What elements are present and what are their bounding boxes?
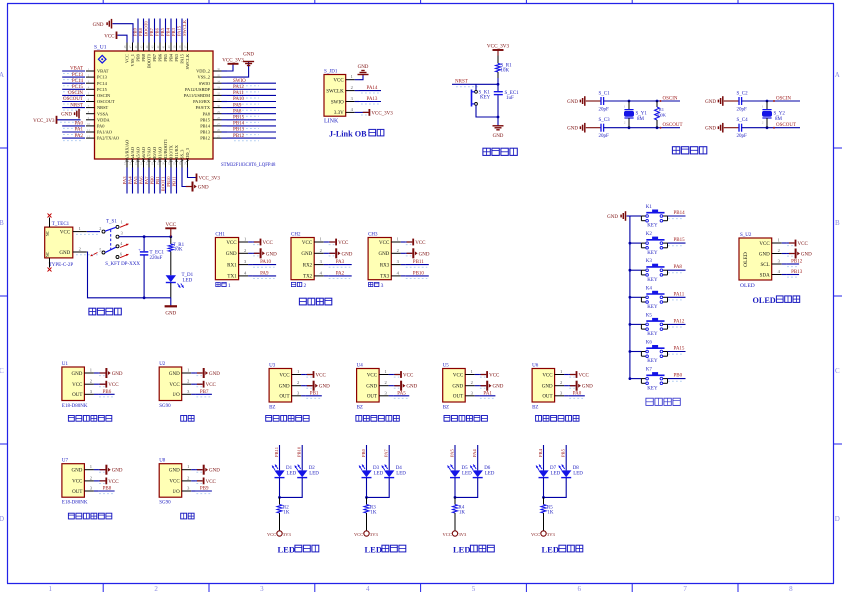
svg-text:1: 1 <box>351 74 353 79</box>
svg-text:PB12: PB12 <box>233 134 245 139</box>
svg-text:LED: LED <box>573 471 583 476</box>
svg-text:SWCLK: SWCLK <box>182 19 187 36</box>
svg-text:2: 2 <box>244 248 246 253</box>
LED D2 <box>295 465 320 478</box>
ground GND (S_C4 crystal bottom) <box>705 123 739 133</box>
ground GND (S_C1 crystal top) <box>567 96 601 106</box>
svg-text:E18-D80NK: E18-D80NK <box>62 501 88 506</box>
svg-text:2: 2 <box>351 85 353 90</box>
wire and net label PB10 (U1 bottom) <box>166 168 171 194</box>
svg-text:PA4: PA4 <box>472 449 477 457</box>
svg-text:VDD_2: VDD_2 <box>196 69 210 74</box>
svg-text:PB5: PB5 <box>160 27 165 36</box>
module U6 body <box>532 364 569 411</box>
svg-text:PB15: PB15 <box>233 116 245 121</box>
svg-text:PA11: PA11 <box>233 91 244 96</box>
no-connect arrow switch pin 5 <box>91 253 98 257</box>
ground GND at U5 pin 2 <box>479 381 503 391</box>
dash marks near TBC1 GND pin <box>76 254 99 256</box>
connector S_JD1 J-Link body <box>324 70 359 125</box>
svg-text:PB14: PB14 <box>674 211 686 216</box>
svg-text:3: 3 <box>121 230 123 235</box>
svg-text:VCC_3V3: VCC_3V3 <box>371 111 393 116</box>
svg-text:PA0: PA0 <box>75 122 84 127</box>
wire and net label PA12 (key K5) <box>668 319 686 327</box>
svg-text:2: 2 <box>99 226 101 231</box>
svg-text:PB10: PB10 <box>297 446 302 457</box>
push button K6 KEY <box>629 341 668 365</box>
svg-text:VCC_3V3: VCC_3V3 <box>199 177 221 182</box>
svg-text:2: 2 <box>297 380 299 385</box>
svg-text:VCC_3V3: VCC_3V3 <box>222 59 244 64</box>
wire TBC1 GND to bottom rail <box>87 252 171 299</box>
svg-text:GND: GND <box>112 469 123 474</box>
title for module U7 <box>68 513 111 519</box>
svg-text:U1: U1 <box>62 362 69 367</box>
svg-text:1: 1 <box>49 585 53 592</box>
svg-text:PB3: PB3 <box>174 53 179 61</box>
svg-text:PA12: PA12 <box>674 319 685 324</box>
svg-text:PB12: PB12 <box>200 136 210 141</box>
ground GND at S_JD1 pin 1 <box>358 65 369 80</box>
power VCC at U3 pin 1 <box>306 371 327 378</box>
svg-text:VCC: VCC <box>333 79 344 84</box>
wire and net label SWCLK (U1 top) <box>182 19 188 43</box>
svg-text:1: 1 <box>79 226 81 231</box>
wire and net label PA10 (U1 right) <box>227 97 276 104</box>
svg-text:D8: D8 <box>573 466 580 471</box>
resistor S_R1 10K <box>496 56 513 79</box>
svg-text:PA2: PA2 <box>336 272 345 277</box>
wire and net label PA12 (U1 right) <box>227 85 276 92</box>
resistor R5 1K <box>541 497 554 530</box>
svg-text:VCC: VCC <box>169 383 180 388</box>
power VCC at U7 pin 2 <box>99 478 120 485</box>
wire and net label PB13 (U1 right) <box>227 128 276 135</box>
svg-text:2: 2 <box>320 248 322 253</box>
wire and net label PB1 (U1 bottom) <box>155 168 160 194</box>
svg-text:GND: GND <box>452 385 463 390</box>
wire and net label NRST (U1 left pin 7) <box>62 103 85 110</box>
resistor T_R1 10K <box>168 237 184 262</box>
svg-text:K4: K4 <box>646 286 653 291</box>
svg-text:PC14: PC14 <box>97 81 108 86</box>
wire OSCIN row <box>604 100 680 102</box>
svg-text:OUT: OUT <box>367 395 377 400</box>
svg-text:GND: GND <box>59 251 70 256</box>
svg-text:PA5: PA5 <box>133 176 138 184</box>
svg-text:K7: K7 <box>646 368 653 373</box>
net label OSCOUT <box>660 123 683 129</box>
wire and net label VBAT (U1 left pin 1) <box>62 67 85 74</box>
svg-text:VSSA: VSSA <box>97 111 109 116</box>
svg-text:U4: U4 <box>357 364 364 369</box>
svg-text:PA12/USBDP: PA12/USBDP <box>185 87 211 92</box>
svg-text:E18-D80NK: E18-D80NK <box>62 404 88 409</box>
svg-text:1K: 1K <box>370 511 377 516</box>
svg-text:KEY: KEY <box>647 251 658 256</box>
svg-text:2: 2 <box>304 283 307 289</box>
svg-text:GND: GND <box>366 385 377 390</box>
svg-text:PB1: PB1 <box>155 176 160 185</box>
svg-text:VCC: VCC <box>104 35 115 40</box>
svg-text:PB4: PB4 <box>169 53 174 61</box>
svg-text:C: C <box>835 367 840 375</box>
svg-text:2: 2 <box>778 248 780 253</box>
svg-text:PB6: PB6 <box>158 53 163 61</box>
wire and net label PA1 at U5 pin 3 <box>479 391 495 398</box>
svg-text:GND: GND <box>567 127 578 132</box>
svg-text:GND: GND <box>72 469 83 474</box>
svg-text:10K: 10K <box>174 248 183 253</box>
svg-text:8M: 8M <box>775 117 783 122</box>
svg-text:2: 2 <box>762 121 764 125</box>
svg-text:1: 1 <box>471 369 473 374</box>
svg-text:PB13: PB13 <box>791 270 803 275</box>
svg-text:VCC: VCC <box>453 373 464 378</box>
svg-text:OLED: OLED <box>753 296 776 305</box>
svg-text:PB5: PB5 <box>163 53 168 61</box>
wire and net label PA2 at CH2 pin 4 <box>328 272 352 279</box>
svg-text:PB15: PB15 <box>200 117 211 122</box>
svg-text:S_JD1: S_JD1 <box>324 70 338 75</box>
svg-text:GND: GND <box>72 372 83 377</box>
svg-text:OUT: OUT <box>279 395 289 400</box>
svg-text:GND: GND <box>165 312 176 317</box>
svg-text:8: 8 <box>789 585 793 592</box>
svg-text:VCC: VCC <box>489 374 500 379</box>
svg-text:R3: R3 <box>370 505 376 510</box>
svg-text:LED: LED <box>183 278 193 283</box>
svg-text:S_KFT DP-XXX: S_KFT DP-XXX <box>105 262 140 267</box>
svg-text:PB13: PB13 <box>200 130 211 135</box>
capacitor S_C2 20pF <box>737 92 749 113</box>
svg-text:GND: GND <box>112 372 123 377</box>
power VCC at S_U2 pin 1 <box>787 240 809 247</box>
svg-text:GND: GND <box>406 385 417 390</box>
svg-text:LED: LED <box>287 471 297 476</box>
svg-text:SDA: SDA <box>760 273 770 278</box>
svg-text:7: 7 <box>683 585 687 592</box>
wire and net label PB13 at S_U2 pin 4 <box>787 270 803 277</box>
svg-text:GND: GND <box>542 385 553 390</box>
LED D3 <box>359 465 384 478</box>
svg-text:PA5/AO: PA5/AO <box>136 147 141 162</box>
svg-text:T_D1: T_D1 <box>182 273 194 278</box>
svg-text:GND: GND <box>607 215 618 220</box>
svg-text:PB14: PB14 <box>200 124 211 129</box>
title for module U5 <box>444 416 487 422</box>
svg-text:RX1: RX1 <box>227 263 237 268</box>
net label OSCIN <box>773 96 791 102</box>
svg-text:1: 1 <box>397 237 399 242</box>
svg-text:PB5: PB5 <box>561 448 566 457</box>
svg-text:GND: GND <box>759 252 770 257</box>
svg-text:GND: GND <box>169 372 180 377</box>
wire and net label PA0 at U6 pin 3 <box>569 391 585 398</box>
wire and net label PB14 (U1 right) <box>227 122 276 129</box>
title LED light circuit <box>453 545 494 555</box>
svg-text:K3: K3 <box>646 259 653 264</box>
svg-text:VBAT: VBAT <box>70 67 83 72</box>
svg-text:PB9: PB9 <box>132 27 137 36</box>
svg-text:3V3: 3V3 <box>459 532 467 537</box>
svg-text:VCC: VCC <box>367 373 378 378</box>
svg-text:PB8: PB8 <box>141 53 146 61</box>
LED D5 <box>448 465 473 478</box>
svg-text:VCC: VCC <box>531 532 540 537</box>
svg-text:PA8: PA8 <box>674 265 683 270</box>
svg-text:B: B <box>0 219 4 227</box>
svg-text:VCC: VCC <box>415 241 426 246</box>
svg-text:LED: LED <box>485 471 495 476</box>
wire and net label PB11 (LED column) <box>274 445 280 470</box>
svg-text:R4: R4 <box>458 505 464 510</box>
wire and net label OSCOUT (U1 left pin 6) <box>62 97 85 104</box>
svg-text:3: 3 <box>381 283 384 289</box>
LED T_D1 <box>166 262 194 298</box>
push button K3 KEY <box>629 259 668 283</box>
wire and net label PB12 at S_U2 pin 3 <box>787 259 803 266</box>
svg-text:D: D <box>0 515 4 523</box>
svg-text:PB15: PB15 <box>674 238 686 243</box>
ground GND at U7 pin 1 <box>99 465 123 475</box>
svg-text:PA11: PA11 <box>674 292 685 297</box>
svg-text:PA7: PA7 <box>384 449 389 457</box>
svg-text:PB11: PB11 <box>171 176 176 187</box>
svg-text:GND: GND <box>358 65 369 70</box>
wire and net label PA5 (U1 bottom) <box>133 168 138 194</box>
svg-text:S_C4: S_C4 <box>737 118 749 123</box>
svg-text:PA1/AO: PA1/AO <box>97 130 112 135</box>
svg-text:PB11: PB11 <box>413 260 424 265</box>
svg-text:NRST: NRST <box>70 103 83 108</box>
svg-text:PA6/AO: PA6/AO <box>141 147 146 162</box>
svg-text:220uF: 220uF <box>150 256 163 261</box>
ground GND at CH2 pin 2 <box>328 248 353 258</box>
push button S_K1 KEY <box>472 84 500 117</box>
svg-text:VCC: VCC <box>165 222 176 228</box>
svg-text:VBAT: VBAT <box>97 69 109 74</box>
power VCC at U4 pin 1 <box>393 371 414 378</box>
title OLED display <box>753 296 800 305</box>
LED D7 <box>536 465 561 478</box>
svg-text:OSCOUT: OSCOUT <box>97 99 115 104</box>
module U5 body <box>443 364 480 411</box>
svg-text:BZ: BZ <box>357 406 363 411</box>
svg-text:TX1: TX1 <box>227 275 237 280</box>
power VCC at U8 pin 2 <box>196 478 217 485</box>
svg-text:VCC: VCC <box>354 532 363 537</box>
wire and net label PA2 (U1 left) <box>62 134 85 141</box>
svg-text:PA15: PA15 <box>176 25 181 36</box>
ground GND (S_C2 crystal top) <box>705 96 739 106</box>
svg-text:OSCOUT: OSCOUT <box>63 97 83 102</box>
svg-text:U6: U6 <box>532 364 539 369</box>
title serial port circuit <box>299 298 331 305</box>
svg-text:D5: D5 <box>462 466 469 471</box>
module U4 body <box>357 364 394 411</box>
module U3 body <box>269 364 306 411</box>
svg-text:5: 5 <box>99 248 101 253</box>
svg-text:GND: GND <box>226 252 237 257</box>
wire LED cathodes join <box>454 478 478 499</box>
resistor R4 1K <box>453 497 466 530</box>
svg-text:VCC: VCC <box>379 241 390 246</box>
power VCC at U6 pin 1 <box>569 371 590 378</box>
svg-text:GND: GND <box>243 53 254 58</box>
wire and net label PA3 (U1 bottom) <box>122 168 127 194</box>
svg-text:PA2: PA2 <box>75 134 84 139</box>
wire and net label PB5 (U1 top) <box>160 19 166 43</box>
svg-text:GND: GND <box>319 385 330 390</box>
svg-text:1: 1 <box>624 105 626 109</box>
svg-text:GND: GND <box>493 134 504 139</box>
resistor R1 100K (crystal) <box>655 100 667 129</box>
svg-text:I/O: I/O <box>173 490 180 495</box>
svg-text:VSS_2: VSS_2 <box>198 75 210 80</box>
svg-text:LED: LED <box>309 471 319 476</box>
svg-text:PB3: PB3 <box>171 27 176 36</box>
svg-text:PA10/RX: PA10/RX <box>193 99 211 104</box>
svg-text:PB7: PB7 <box>200 390 209 395</box>
svg-text:S_U1: S_U1 <box>94 45 107 51</box>
svg-text:VCC: VCC <box>403 374 414 379</box>
wire and net label PB3 (U1 top) <box>171 19 177 43</box>
svg-text:T_S1: T_S1 <box>106 220 117 225</box>
svg-text:VCC: VCC <box>125 54 130 63</box>
svg-text:VCC: VCC <box>759 242 770 247</box>
module U7 body <box>62 459 99 506</box>
svg-text:KEY: KEY <box>647 278 658 283</box>
title for module U6 <box>536 416 579 422</box>
svg-text:2: 2 <box>397 248 399 253</box>
svg-text:PB10/TX: PB10/TX <box>169 144 174 162</box>
power VCC (power circuit) <box>165 222 176 237</box>
wire and net label PA7 (U1 bottom) <box>144 168 149 194</box>
svg-text:LED: LED <box>453 545 470 555</box>
svg-text:2: 2 <box>187 379 189 384</box>
wire and net label PA10 at CH1 pin 3 <box>253 260 277 267</box>
svg-text:SG90: SG90 <box>159 404 171 409</box>
svg-text:SWIO: SWIO <box>331 100 344 105</box>
title power circuit <box>89 308 121 315</box>
svg-text:BOOT0: BOOT0 <box>143 20 148 36</box>
svg-text:PB7: PB7 <box>152 53 157 61</box>
power VCC at U1 top (VCC pin) <box>104 32 127 43</box>
wire and net label PA8 (U1 right) <box>227 109 276 116</box>
svg-text:CH3: CH3 <box>368 233 378 238</box>
wire TBC1 VCC to switch <box>76 232 100 235</box>
power VCC_3V3 (LED circuit bottom) <box>267 531 291 537</box>
svg-text:PA14: PA14 <box>367 86 378 91</box>
LED D6 <box>470 465 495 478</box>
svg-text:1: 1 <box>762 105 764 109</box>
svg-text:GND: GND <box>169 469 180 474</box>
svg-text:1: 1 <box>90 464 92 469</box>
wire and net label PB10 at CH3 pin 4 <box>405 272 429 279</box>
title key circuit <box>646 398 680 405</box>
wire and net label PC14 (U1 left pin 3) <box>62 79 85 86</box>
ground GND at U1 top (VSS_1) <box>93 19 133 43</box>
svg-text:PA2/TX/AO: PA2/TX/AO <box>97 136 119 141</box>
svg-text:10K: 10K <box>501 69 510 74</box>
svg-text:1K: 1K <box>547 511 554 516</box>
wire and net label PB6 at U1 pin 3 <box>99 390 115 397</box>
svg-text:NRST: NRST <box>455 80 468 85</box>
svg-text:PA11/USBDM: PA11/USBDM <box>184 93 210 98</box>
svg-text:PB10: PB10 <box>166 176 171 187</box>
svg-text:PA15: PA15 <box>674 347 685 352</box>
power VCC_3V3 at U1 right (VDD_2) <box>222 59 244 72</box>
wire and net label OSCIN (U1 left pin 5) <box>62 91 85 98</box>
svg-text:PC14: PC14 <box>72 79 84 84</box>
wire and net label SWIO (U1 right) <box>227 79 276 86</box>
svg-text:OUT: OUT <box>72 490 82 495</box>
wire and net label PC15 (U1 left pin 4) <box>62 85 85 92</box>
svg-text:PA6: PA6 <box>138 176 143 184</box>
svg-text:100K: 100K <box>656 113 667 118</box>
svg-text:TX2: TX2 <box>303 275 313 280</box>
wire and net label PB9 (U1 top) <box>132 19 138 43</box>
svg-text:LED: LED <box>551 471 561 476</box>
resistor R2 1K <box>277 497 290 530</box>
power VCC_3V3 (reset circuit top) <box>487 44 510 56</box>
power VCC at CH1 pin 1 <box>253 239 274 246</box>
wire and net label PB5 (LED column) <box>561 445 567 470</box>
svg-text:STM32F103C8T6_LQFP48: STM32F103C8T6_LQFP48 <box>221 163 276 168</box>
svg-text:2: 2 <box>624 121 626 125</box>
push button K7 KEY <box>629 368 668 392</box>
svg-text:VSS_3: VSS_3 <box>180 149 185 162</box>
svg-text:OSCIN: OSCIN <box>776 96 791 101</box>
no-connect arrow switch pin 6 <box>120 254 129 258</box>
module name label below CH1 <box>216 282 231 289</box>
svg-text:S_Y2: S_Y2 <box>774 112 786 117</box>
svg-text:NRST: NRST <box>97 105 109 110</box>
svg-text:PB13: PB13 <box>233 128 245 133</box>
svg-text:VCC: VCC <box>338 241 349 246</box>
svg-text:3V3: 3V3 <box>547 532 555 537</box>
svg-text:1: 1 <box>187 464 189 469</box>
svg-text:OSCOUT: OSCOUT <box>663 123 683 128</box>
wire OSCOUT row <box>604 127 680 129</box>
svg-text:VCC: VCC <box>579 374 590 379</box>
wire and net label BOOT0 (U1 top) <box>143 19 149 43</box>
wire and net label PA9 at CH1 pin 4 <box>253 272 277 279</box>
svg-text:R2: R2 <box>283 505 289 510</box>
svg-text:PA8: PA8 <box>203 111 211 116</box>
wire and net label PA11 (key K4) <box>668 292 686 300</box>
wire and net label PB0 (U1 bottom) <box>149 168 154 194</box>
svg-text:KEY: KEY <box>480 95 491 100</box>
svg-text:PA10: PA10 <box>233 97 244 102</box>
svg-text:PB6: PB6 <box>154 27 159 36</box>
switch T_S1 S_KFT DP-X03 <box>99 220 140 268</box>
svg-text:PB10: PB10 <box>413 272 425 277</box>
push button K4 KEY <box>629 286 668 310</box>
wire and net label PB1 at U3 pin 3 <box>306 391 322 398</box>
wire and net label PA3 at CH2 pin 3 <box>328 260 352 267</box>
wire OSCOUT row <box>742 127 800 129</box>
svg-text:TX3: TX3 <box>380 275 390 280</box>
svg-text:PA7/AO: PA7/AO <box>147 147 152 162</box>
svg-text:1K: 1K <box>459 511 466 516</box>
svg-text:VCC_3V3: VCC_3V3 <box>487 44 510 50</box>
wire LED cathodes join <box>542 478 566 499</box>
wire and net label PB6 (U1 top) <box>154 19 160 43</box>
svg-text:1: 1 <box>320 237 322 242</box>
